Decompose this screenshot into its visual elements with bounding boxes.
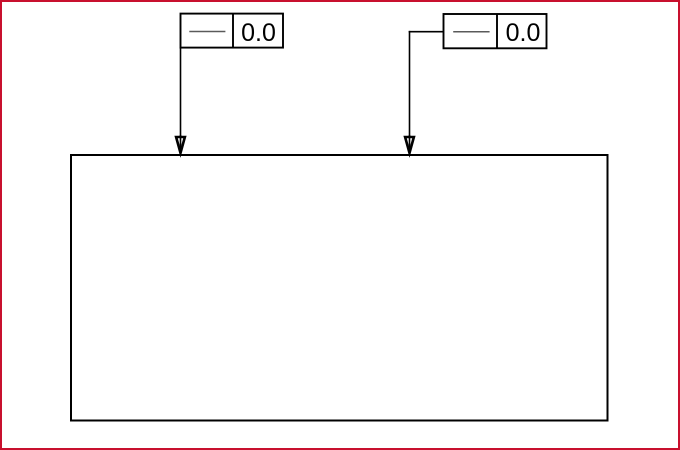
arrowhead 1 xyxy=(176,137,185,153)
svg-text:0.0: 0.0 xyxy=(506,19,541,47)
wire leader 2 vertical xyxy=(409,31,411,151)
arrowhead 2 xyxy=(405,137,414,153)
feature control frame FCF1 outer box xyxy=(181,14,284,48)
FCF2 straightness symbol xyxy=(453,31,489,33)
FCF2 cell divider xyxy=(496,14,498,48)
arrowhead 1 shaft xyxy=(180,135,182,153)
FCF1 straightness symbol xyxy=(189,31,225,33)
svg-text:0.0: 0.0 xyxy=(241,19,276,47)
part outline rectangle xyxy=(71,155,608,421)
arrowhead 2 shaft xyxy=(409,135,411,153)
feature control frame FCF2 outer box xyxy=(444,14,547,48)
wire leader 2 horizontal xyxy=(409,31,444,33)
wire leader 1 vertical xyxy=(180,48,182,151)
FCF1 cell divider xyxy=(232,14,234,48)
